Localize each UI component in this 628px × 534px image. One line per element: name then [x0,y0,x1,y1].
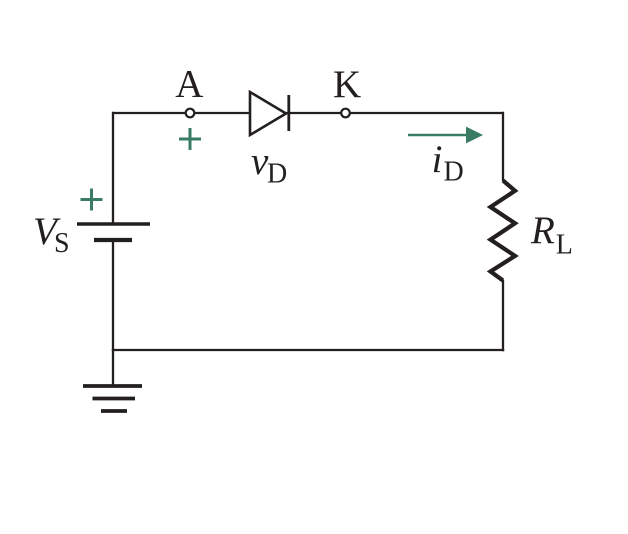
svg-text:i: i [432,138,443,181]
polarity plus at node A (green) [179,128,201,150]
current arrow iD (green) [408,127,483,144]
wire right vertical lower (resistor to bottom) [502,280,504,351]
resistor RL zigzag [491,181,516,281]
wire bottom horizontal return [112,349,504,351]
wire left vertical lower (source negative to ground/bottom) [112,240,114,385]
svg-text:D: D [267,158,287,189]
svg-text:S: S [54,228,70,259]
svg-text:D: D [444,157,464,188]
battery VS long positive plate [77,222,150,226]
svg-text:L: L [556,230,573,261]
svg-text:K: K [333,63,361,106]
svg-text:A: A [175,62,203,105]
diode D1 (anode left, cathode right) [250,92,289,135]
wire right vertical upper (node K side down to resistor) [502,112,504,181]
battery VS short negative plate [94,238,132,242]
wire left vertical upper (source positive to node A) [112,112,114,224]
polarity plus at source VS (green) [81,189,103,211]
wire top horizontal from source to load [113,112,503,114]
svg-text:R: R [530,209,555,252]
node A terminal circle [186,109,195,118]
node K terminal circle [341,109,350,118]
ground symbol [83,386,142,411]
